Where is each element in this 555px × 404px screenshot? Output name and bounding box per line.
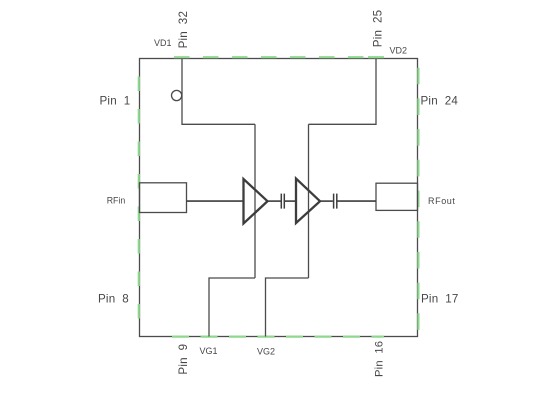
amplifier A1 bbox=[244, 179, 268, 224]
wire: A1 output to C1 bbox=[268, 200, 281, 202]
package boundary dashed (bottom edge) bbox=[172, 336, 384, 338]
wire: VD2 pin 25 branch bbox=[309, 59, 377, 125]
DC block capacitor C1 bbox=[280, 194, 282, 209]
wire: C1 to amplifier A2 input bbox=[285, 200, 296, 202]
wire: VD1 pin 32 branch bbox=[182, 59, 255, 125]
svg-text:Pin 24: Pin 24 bbox=[421, 94, 459, 107]
DC block capacitor C2 bbox=[333, 194, 335, 209]
svg-text:Pin 1: Pin 1 bbox=[100, 94, 131, 107]
svg-text:VG1: VG1 bbox=[200, 346, 218, 356]
RFin port box bbox=[140, 183, 187, 213]
svg-text:VD1: VD1 bbox=[154, 38, 172, 48]
svg-text:Pin 32: Pin 32 bbox=[177, 11, 190, 49]
wire: VG2 pin branch bbox=[266, 278, 309, 337]
package boundary dashed (left edge) bbox=[138, 77, 140, 322]
amplifier A2 bbox=[296, 179, 320, 224]
pin 1 index marker bbox=[172, 90, 182, 100]
wire: C2 to RFout bbox=[338, 200, 377, 202]
svg-text:VG2: VG2 bbox=[257, 346, 275, 356]
RFout port box bbox=[376, 183, 418, 210]
package boundary dash segment near pin 25 bbox=[368, 56, 378, 58]
svg-text:Pin 9: Pin 9 bbox=[177, 344, 190, 375]
svg-text:RFin: RFin bbox=[107, 195, 126, 205]
package boundary dashed (right edge) bbox=[417, 68, 419, 330]
wire: A2 output to C2 bbox=[320, 200, 333, 202]
svg-text:Pin 16: Pin 16 bbox=[374, 341, 386, 377]
svg-text:Pin 25: Pin 25 bbox=[372, 10, 385, 48]
svg-text:Pin 8: Pin 8 bbox=[98, 293, 129, 306]
package outline bbox=[140, 59, 418, 337]
wire: VG1 pin branch bbox=[209, 278, 255, 337]
wire: bias line through amplifier A1 bbox=[254, 124, 256, 278]
svg-text:Pin 17: Pin 17 bbox=[421, 292, 459, 305]
svg-text:VD2: VD2 bbox=[390, 45, 408, 55]
svg-text:RFout: RFout bbox=[428, 196, 456, 206]
wire: bias line through amplifier A2 bbox=[308, 124, 310, 278]
package boundary dashed (top edge) bbox=[174, 56, 384, 58]
wire: RFin to amplifier A1 input bbox=[187, 200, 244, 202]
